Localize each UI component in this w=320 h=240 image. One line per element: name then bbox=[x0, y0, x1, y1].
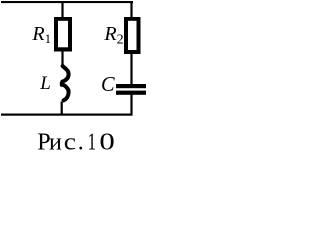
svg-text:1: 1 bbox=[88, 129, 96, 155]
svg-text:.: . bbox=[78, 129, 84, 155]
svg-text:с: с bbox=[64, 129, 76, 155]
svg-text:C: C bbox=[101, 72, 116, 96]
svg-text:L: L bbox=[39, 73, 51, 94]
svg-text:0: 0 bbox=[99, 129, 114, 155]
svg-text:и: и bbox=[49, 129, 62, 155]
